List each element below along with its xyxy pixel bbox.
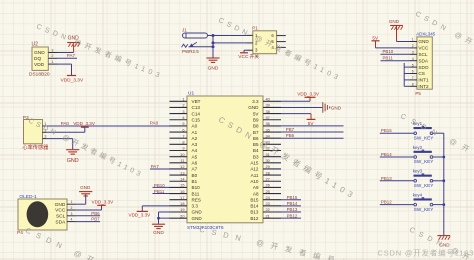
svg-text:PB14: PB14: [381, 152, 392, 157]
svg-text:开关: 开关: [250, 53, 260, 60]
svg-text:22: 22: [266, 207, 270, 212]
svg-text:SW_KEY: SW_KEY: [414, 159, 434, 164]
svg-text:B3: B3: [253, 154, 259, 159]
svg-text:C13: C13: [192, 105, 201, 110]
svg-text:GND: GND: [331, 106, 342, 111]
svg-text:25: 25: [266, 189, 270, 194]
svg-text:J1: J1: [182, 28, 187, 33]
svg-text:PA7: PA7: [67, 53, 76, 58]
svg-text:A4: A4: [192, 148, 198, 153]
svg-text:18: 18: [180, 201, 184, 206]
svg-text:21: 21: [266, 213, 270, 218]
svg-text:DQ: DQ: [34, 56, 41, 62]
svg-text:SW_KEY: SW_KEY: [414, 135, 434, 140]
svg-text:VDD_3.3V: VDD_3.3V: [61, 78, 84, 84]
svg-text:8: 8: [182, 140, 184, 145]
svg-text:SDA: SDA: [418, 58, 429, 63]
svg-text:PB11: PB11: [383, 56, 394, 61]
svg-text:SDO: SDO: [418, 65, 429, 70]
svg-text:15: 15: [180, 183, 184, 188]
svg-text:A12: A12: [250, 167, 259, 172]
svg-text:A11: A11: [251, 173, 259, 178]
svg-text:GND: GND: [208, 65, 219, 71]
svg-text:1: 1: [182, 97, 184, 102]
svg-text:2: 2: [52, 54, 54, 58]
svg-text:PB7: PB7: [286, 127, 295, 132]
svg-text:ADXL345: ADXL345: [416, 32, 435, 37]
svg-text:key3: key3: [413, 169, 423, 174]
svg-text:VDD: VDD: [34, 62, 45, 68]
svg-text:GND: GND: [192, 216, 203, 221]
svg-text:SDA: SDA: [55, 219, 66, 225]
svg-text:PB12: PB12: [381, 200, 392, 205]
svg-text:6: 6: [412, 70, 414, 74]
svg-text:PB13: PB13: [381, 176, 392, 181]
svg-text:B14: B14: [250, 204, 259, 209]
svg-text:A6: A6: [192, 161, 198, 166]
svg-text:A5: A5: [192, 154, 198, 159]
svg-text:7: 7: [412, 76, 414, 80]
svg-text:3: 3: [182, 109, 184, 114]
svg-text:35: 35: [266, 127, 270, 132]
svg-text:PB10: PB10: [383, 49, 394, 54]
svg-text:8: 8: [412, 83, 414, 87]
svg-text:B4: B4: [253, 148, 259, 153]
svg-text:P5: P5: [415, 91, 421, 96]
svg-text:4: 4: [71, 218, 73, 222]
svg-text:VDD_3.3V: VDD_3.3V: [92, 200, 115, 205]
svg-text:28: 28: [266, 170, 270, 175]
svg-text:PB7: PB7: [91, 217, 100, 222]
svg-text:1: 1: [52, 60, 54, 64]
svg-text:1: 1: [71, 200, 73, 204]
svg-text:SCL: SCL: [418, 52, 428, 57]
svg-text:A15: A15: [250, 161, 259, 166]
svg-text:13: 13: [180, 170, 184, 175]
svg-text:VCC: VCC: [418, 46, 429, 51]
svg-text:16: 16: [180, 189, 184, 194]
svg-text:4: 4: [412, 57, 414, 61]
svg-text:A3: A3: [192, 142, 198, 147]
svg-text:GND: GND: [80, 185, 91, 190]
svg-text:VDD_3.3V: VDD_3.3V: [73, 121, 96, 126]
svg-text:PB12: PB12: [287, 213, 298, 218]
svg-text:23: 23: [266, 201, 270, 206]
svg-text:INT2: INT2: [418, 84, 429, 89]
svg-text:PB14: PB14: [287, 201, 298, 206]
svg-text:GND: GND: [153, 230, 164, 236]
svg-text:3: 3: [71, 212, 73, 216]
svg-text:5V: 5V: [372, 35, 379, 40]
svg-text:GND: GND: [55, 202, 66, 208]
svg-text:VCC: VCC: [238, 54, 249, 60]
svg-text:2: 2: [71, 206, 73, 210]
svg-text:37: 37: [266, 115, 270, 120]
svg-text:3: 3: [412, 51, 414, 55]
svg-text:PB13: PB13: [287, 207, 298, 212]
svg-text:VDD_3.3V: VDD_3.3V: [129, 212, 152, 217]
svg-text:PB6: PB6: [286, 133, 295, 138]
svg-text:3.3: 3.3: [252, 99, 259, 104]
svg-text:PA0: PA0: [61, 121, 70, 126]
svg-text:C15: C15: [192, 117, 201, 122]
svg-text:2: 2: [412, 44, 414, 48]
svg-text:PB6: PB6: [91, 211, 100, 216]
svg-text:B15: B15: [250, 197, 259, 202]
svg-text:6: 6: [182, 127, 184, 132]
svg-text:VDD_3.3V: VDD_3.3V: [297, 92, 320, 97]
svg-text:B8: B8: [253, 124, 259, 129]
svg-text:GND: GND: [389, 19, 400, 24]
svg-text:2: 2: [182, 103, 184, 108]
svg-text:CSDN @开发者编号1103: CSDN @开发者编号1103: [378, 247, 474, 257]
svg-text:29: 29: [266, 164, 270, 169]
svg-text:GND: GND: [34, 50, 45, 56]
svg-text:B0: B0: [192, 173, 198, 178]
svg-text:A7: A7: [192, 167, 198, 172]
svg-text:17: 17: [180, 195, 184, 200]
svg-text:DS18B20: DS18B20: [29, 71, 50, 77]
svg-text:19: 19: [180, 207, 184, 212]
svg-text:PB15: PB15: [287, 195, 298, 200]
svg-text:3: 3: [45, 135, 47, 139]
svg-text:GND: GND: [248, 105, 259, 110]
svg-text:A0: A0: [192, 124, 198, 129]
svg-text:39: 39: [266, 103, 270, 108]
svg-text:INT1: INT1: [418, 78, 429, 83]
svg-text:VCC: VCC: [55, 208, 66, 214]
svg-text:3.3: 3.3: [192, 204, 199, 209]
svg-text:B9: B9: [253, 117, 259, 122]
svg-text:RES: RES: [192, 197, 201, 202]
svg-text:A2: A2: [192, 136, 198, 141]
svg-text:C14: C14: [192, 111, 201, 116]
svg-text:key4: key4: [413, 192, 423, 197]
svg-text:A8: A8: [253, 191, 259, 196]
svg-text:B10: B10: [192, 185, 201, 190]
svg-text:B13: B13: [250, 210, 259, 215]
svg-text:38: 38: [266, 109, 270, 114]
svg-text:SCL: SCL: [56, 214, 66, 220]
svg-text:key2: key2: [413, 145, 423, 150]
svg-text:B1: B1: [192, 179, 198, 184]
svg-text:A10: A10: [250, 179, 259, 184]
svg-text:9: 9: [182, 146, 184, 151]
svg-text:3: 3: [52, 48, 54, 52]
svg-text:PA0: PA0: [150, 121, 159, 126]
svg-text:12: 12: [180, 164, 184, 169]
svg-text:SW_KEY: SW_KEY: [414, 183, 434, 188]
svg-text:A9: A9: [253, 185, 259, 190]
svg-text:P1: P1: [252, 25, 258, 30]
svg-text:A1: A1: [192, 130, 198, 135]
svg-text:心率传感器: 心率传感器: [22, 143, 49, 151]
svg-text:26: 26: [266, 183, 270, 188]
svg-text:PWR2.5: PWR2.5: [182, 49, 199, 54]
svg-text:11: 11: [180, 158, 184, 163]
svg-text:B12: B12: [250, 216, 259, 221]
svg-text:SW_KEY: SW_KEY: [414, 207, 434, 212]
svg-text:VBT: VBT: [192, 99, 201, 104]
svg-text:PB11: PB11: [154, 189, 165, 194]
svg-text:5V: 5V: [253, 111, 260, 116]
svg-text:36: 36: [266, 121, 270, 126]
svg-text:PA7: PA7: [151, 164, 160, 169]
svg-text:PB15: PB15: [381, 128, 392, 133]
svg-text:PB10: PB10: [154, 183, 165, 188]
svg-text:P4: P4: [17, 230, 23, 236]
svg-text:5: 5: [182, 121, 184, 126]
svg-text:27: 27: [266, 176, 270, 181]
svg-text:B11: B11: [192, 191, 200, 196]
svg-text:1: 1: [412, 38, 414, 42]
svg-text:7: 7: [182, 133, 184, 138]
svg-text:CS: CS: [418, 71, 425, 76]
svg-text:GND: GND: [418, 39, 429, 44]
svg-text:GND: GND: [192, 210, 203, 215]
svg-text:5: 5: [412, 63, 414, 67]
svg-text:GND: GND: [67, 158, 79, 164]
